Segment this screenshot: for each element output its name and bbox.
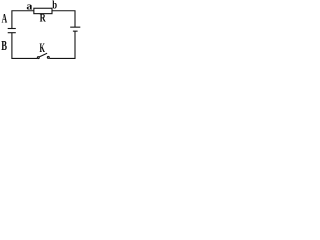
svg-text:K: K: [40, 42, 45, 56]
svg-text:A: A: [2, 13, 8, 26]
svg-text:a: a: [26, 1, 32, 12]
svg-text:B: B: [1, 39, 7, 53]
svg-text:b: b: [52, 0, 57, 12]
svg-text:R: R: [40, 12, 47, 24]
